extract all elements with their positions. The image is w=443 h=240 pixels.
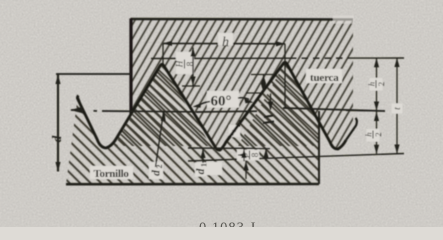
svg-text:2: 2 (376, 82, 386, 86)
halo for 60 label (207, 91, 239, 108)
svg-text:r: r (232, 127, 237, 139)
halo for h label (218, 33, 233, 45)
halo for d2 label (149, 162, 163, 179)
root line B (extends to right dims) (188, 154, 404, 162)
d1 leader (200, 149, 205, 163)
60 right leader (238, 98, 254, 104)
t label (rotated) (392, 107, 402, 110)
inner dim line seg1 (376, 58, 378, 110)
svg-text:Tornillo: Tornillo (94, 168, 130, 180)
d label (rotated) (49, 135, 64, 142)
root arrows (241, 149, 268, 179)
tooth2 flank small dimension (246, 75, 274, 124)
pitch line left with arrow (70, 107, 257, 114)
inner dim line seg2 (376, 111, 378, 154)
h dimension line (163, 41, 285, 108)
svg-text:d: d (151, 170, 163, 176)
crest truncation dimension at tooth1 (182, 48, 200, 87)
screw right edge (318, 111, 320, 184)
svg-text:0.1083 J: 0.1083 J (199, 220, 256, 227)
halo for p/8 label zone (237, 150, 259, 161)
h/2 label lower (rotated) (367, 129, 380, 142)
d dimension (55, 74, 131, 172)
mid extension line (346, 110, 385, 113)
r leader tick (239, 120, 241, 127)
halo for tuerca (306, 69, 342, 83)
d2 label (rotated) (151, 165, 165, 176)
svg-text:2: 2 (373, 132, 383, 136)
root line A (188, 147, 270, 150)
nut block left edge (129, 19, 132, 115)
halo for t label (392, 104, 403, 114)
thread profile outline (77, 62, 346, 150)
root flat label p/8 with arrow (238, 153, 246, 157)
tooth2 interior dense hatch (238, 63, 319, 147)
h/2 label upper (rotated) (370, 78, 383, 91)
svg-text:h: h (222, 35, 229, 50)
nut hatched block (tuerca) (116, 19, 353, 151)
halo for d1 label (195, 163, 206, 177)
svg-text:H: H (175, 60, 185, 68)
screw hatched block (tornillo) (66, 63, 319, 185)
svg-text:8: 8 (250, 152, 260, 157)
svg-text:d: d (49, 135, 64, 142)
extension line over tooth1 (162, 43, 164, 64)
svg-text:60°: 60° (211, 94, 232, 110)
tooth1 interior dense hatch (114, 64, 211, 146)
d1 label (rotated) (195, 163, 209, 174)
svg-text:tuerca: tuerca (310, 72, 339, 84)
screw bottom edge (66, 183, 319, 186)
svg-text:h: h (367, 82, 377, 86)
right dimensions (346, 58, 400, 154)
svg-text:2: 2 (155, 165, 164, 169)
extension line over tooth2 down to pitch line (284, 44, 286, 108)
60 left leader (193, 102, 211, 108)
svg-text:8: 8 (185, 61, 195, 66)
fade on nut top edge right end (333, 16, 354, 24)
svg-text:1: 1 (200, 163, 209, 167)
sharp crest line (151, 57, 290, 59)
halo for H/8 label (176, 52, 194, 74)
halo for Tornillo (90, 166, 133, 179)
halo for r label (under profile) (229, 125, 240, 137)
svg-text:h: h (364, 132, 374, 136)
pitch line right (283, 108, 385, 111)
nut block top edge (131, 18, 354, 21)
svg-text:d: d (195, 168, 207, 174)
d2 leader (156, 112, 166, 168)
outer dim line (396, 58, 398, 154)
H/8 label (rotated fraction) (175, 60, 196, 69)
